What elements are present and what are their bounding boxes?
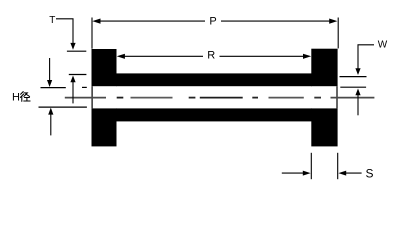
W lower tick (340, 86, 366, 88)
W upper tick (340, 76, 367, 78)
svg-text:T: T (49, 15, 55, 26)
W down arrowhead (355, 68, 360, 75)
H down arrow shaft (49, 58, 51, 82)
H down arrowhead (47, 80, 52, 87)
right flange upper block (311, 49, 337, 86)
P extension line left (91, 18, 93, 49)
S right arrow shaft (345, 172, 362, 174)
T upper tick at flange top (67, 50, 86, 52)
T up arrow below (70, 76, 75, 83)
svg-text:S: S (365, 166, 373, 180)
dimension H径 label: 径 glyph drawn as strokes (20, 92, 30, 102)
S left arrowhead pointing right (303, 171, 311, 176)
P extension line right (337, 18, 339, 49)
S left arrow shaft (282, 172, 305, 174)
T down arrowhead (70, 43, 75, 50)
T lower tick at bar top (69, 74, 87, 76)
svg-text:H: H (12, 92, 20, 104)
H up arrowhead (48, 108, 53, 115)
dimension P line right segment with right arrow (221, 19, 337, 24)
left flange upper block (92, 49, 117, 86)
right flange lower block (311, 108, 337, 146)
S extension line right (337, 153, 339, 179)
svg-text:R: R (207, 50, 215, 62)
T up arrow shaft (72, 82, 74, 104)
W up arrow shaft (357, 95, 359, 116)
H upper extension line (41, 87, 66, 89)
W leader bracket (358, 45, 374, 69)
svg-text:W: W (378, 40, 388, 51)
dimension R line right segment with right arrow (220, 54, 312, 59)
right face edge across bore (336, 86, 338, 108)
T leader bracket (56, 19, 73, 43)
dimension R line left segment with left arrow (117, 54, 203, 59)
S extension line left (310, 153, 312, 179)
H lower extension line (39, 106, 87, 108)
left flange lower block (92, 108, 117, 146)
dimension P line left segment with left arrow (92, 19, 205, 24)
H upper extension line short segment (82, 86, 87, 88)
top tube wall bar (116, 73, 312, 86)
bottom tube wall bar (116, 108, 312, 121)
S right arrowhead pointing left (338, 171, 346, 176)
W up arrow (355, 89, 360, 96)
center axis dash-dot line (65, 97, 375, 99)
left face edge across bore (91, 86, 93, 108)
svg-text:P: P (209, 16, 216, 28)
H up arrow shaft (50, 114, 52, 136)
